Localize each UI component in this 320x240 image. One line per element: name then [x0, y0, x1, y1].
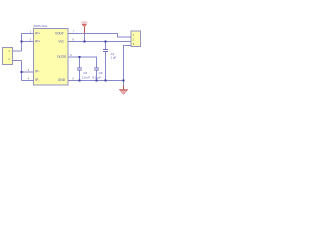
svg-text:C3: C3	[99, 71, 103, 75]
svg-text:IP+: IP+	[35, 40, 40, 44]
svg-text:GND: GND	[58, 78, 66, 82]
svg-text:VDD: VDD	[81, 20, 88, 24]
svg-text:1 µF: 1 µF	[111, 55, 117, 59]
svg-text:1.0 nF: 1.0 nF	[82, 75, 91, 79]
svg-text:IP+: IP+	[35, 32, 40, 36]
svg-text:FILTER: FILTER	[57, 55, 66, 59]
svg-text:IP-: IP-	[35, 70, 39, 74]
svg-text:0.1 µF: 0.1 µF	[93, 75, 102, 79]
svg-text:ACHS-712x: ACHS-712x	[34, 24, 48, 28]
svg-text:IP-: IP-	[35, 78, 39, 82]
svg-text:VOUT: VOUT	[55, 32, 64, 36]
svg-text:Vcc: Vcc	[58, 40, 64, 44]
svg-text:C2: C2	[83, 71, 87, 75]
